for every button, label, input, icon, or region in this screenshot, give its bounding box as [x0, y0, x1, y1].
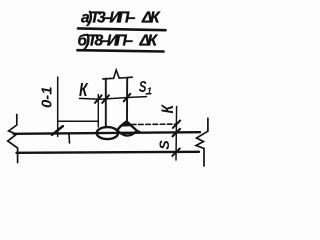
tick at stem right edge [124, 94, 131, 102]
small stray tick below plate top [68, 135, 71, 144]
svg-text:К: К [158, 104, 177, 114]
stem left edge [105, 79, 107, 128]
weld bead left (ellipse) [97, 127, 118, 139]
tick at plate bottom crossing [172, 149, 180, 156]
left break line [8, 115, 18, 163]
svg-text:б)Т8–ИП– ΔК: б)Т8–ИП– ΔК [78, 33, 159, 50]
stem right edge [126, 78, 128, 122]
svg-text:0-1: 0-1 [39, 87, 56, 109]
dashed reference line (weld top level, right) [131, 123, 176, 125]
underline under title a [78, 28, 166, 30]
stem top break line [103, 70, 133, 79]
delta dimension line (vertical, left) [57, 77, 59, 137]
right break line [196, 118, 208, 166]
bottom plate bottom edge [17, 152, 200, 153]
K and S1 dimension line (horizontal, top) [80, 97, 147, 100]
bottom plate top edge [14, 132, 201, 134]
weld right apex fill [122, 122, 131, 127]
svg-text:S: S [156, 140, 172, 150]
tick at weld toe extension [95, 95, 102, 103]
weld top level line (left) [58, 120, 99, 122]
right K and S dimension line (vertical) [175, 107, 178, 161]
svg-text:а)Т3–ИП– ΔК: а)Т3–ИП– ΔК [81, 10, 161, 27]
tick at dashed line crossing [173, 121, 180, 128]
svg-text:1: 1 [147, 86, 152, 97]
weld bead right (triangle with curved base) [117, 121, 140, 135]
extension line from left weld toe [97, 95, 99, 128]
svg-text:К: К [79, 80, 89, 100]
tick on delta dim at plate top [52, 126, 63, 135]
tick at stem left edge [102, 95, 109, 103]
tick at plate top crossing [173, 129, 181, 136]
underline under title b [78, 50, 164, 51]
